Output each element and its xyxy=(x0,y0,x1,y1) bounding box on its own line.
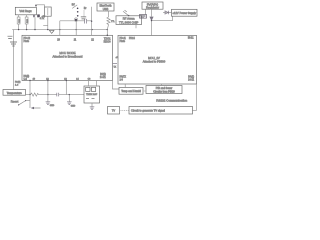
wire osc horizontal xyxy=(60,20,92,22)
svg-text:1-8: 1-8 xyxy=(120,80,124,82)
svg-text:Reset: Reset xyxy=(11,100,19,104)
temp humid box xyxy=(119,88,143,95)
capacitor C1 on pin xyxy=(17,17,20,24)
svg-text:14: 14 xyxy=(76,78,79,80)
svg-text:1-8: 1-8 xyxy=(15,85,19,87)
wire RF stub xyxy=(135,25,137,29)
wire drop SW xyxy=(29,81,31,109)
svg-text:10: 10 xyxy=(33,78,36,80)
svg-text:10: 10 xyxy=(57,40,60,42)
wire to MCU2 xyxy=(151,21,153,35)
svg-text:14-21: 14-21 xyxy=(188,79,195,81)
capacitor C3 pair xyxy=(34,15,35,18)
dashes link xyxy=(144,90,146,92)
capacitor C5 plates xyxy=(8,36,13,38)
svg-text:Temp and Humid: Temp and Humid xyxy=(121,89,141,93)
svg-text:TTL: TTL xyxy=(111,21,115,23)
svg-text:Circuitry from PIN20: Circuitry from PIN20 xyxy=(153,91,175,94)
svg-text:TX: TX xyxy=(114,67,117,69)
svg-text:TX-D1: TX-D1 xyxy=(104,39,111,41)
wire drop G2 xyxy=(47,81,49,102)
wire branch 12V xyxy=(152,16,173,20)
svg-text:TV: TV xyxy=(112,109,116,113)
svg-text:+12V Power Supply: +12V Power Supply xyxy=(172,11,196,15)
wire jack pin xyxy=(145,9,147,14)
wire pin2 xyxy=(26,15,28,30)
wire cap drop xyxy=(34,17,36,29)
svg-text:Proto: Proto xyxy=(24,40,30,43)
ground G2 xyxy=(46,102,51,105)
wire drop temp2 xyxy=(124,84,126,88)
svg-text:RS232 Communication: RS232 Communication xyxy=(156,99,187,103)
wire reg pin2 xyxy=(151,9,153,16)
capacitor C7 plates xyxy=(81,17,86,19)
svg-text:TTL 9600 CHIP: TTL 9600 CHIP xyxy=(119,20,138,24)
wire diode xyxy=(163,12,172,14)
svg-text:Circuit to generate TV signal: Circuit to generate TV signal xyxy=(131,109,165,113)
svg-text:Proto: Proto xyxy=(120,40,126,43)
svg-text:MCU_2V: MCU_2V xyxy=(148,56,160,60)
antenna A1 xyxy=(123,11,128,15)
svg-text:PIR and Sonar: PIR and Sonar xyxy=(156,87,173,90)
svg-text:PA(1): PA(1) xyxy=(188,75,194,78)
dashes TV link xyxy=(121,109,129,111)
svg-text:5v: 5v xyxy=(84,8,87,10)
svg-text:PD-11: PD-11 xyxy=(120,38,127,40)
bluetooth module box xyxy=(97,3,114,11)
svg-text:PA(0): PA(0) xyxy=(15,81,21,84)
wire to C8 xyxy=(39,94,57,96)
TV signal box xyxy=(129,107,193,115)
svg-text:Volt Regu: Volt Regu xyxy=(19,9,32,13)
ground G3 xyxy=(67,102,72,105)
svg-text:GND: GND xyxy=(71,105,76,107)
crystal X2 xyxy=(91,87,95,91)
wire drop G3 xyxy=(66,81,69,102)
ground G4 xyxy=(90,107,95,110)
ground G1 xyxy=(10,42,17,46)
capacitor C6 bars xyxy=(85,19,87,24)
TV box xyxy=(108,107,120,115)
crystal X1 xyxy=(86,87,90,91)
resistor R3 zigzag xyxy=(31,93,39,96)
temperature sensor box xyxy=(3,90,26,96)
wire U2 to temp2 xyxy=(113,81,120,90)
wire xtal gnd xyxy=(91,103,93,107)
svg-text:14-21: 14-21 xyxy=(100,77,107,79)
12V supply box xyxy=(172,9,198,16)
RF module box xyxy=(116,16,142,25)
svg-text:PA(0): PA(0) xyxy=(24,75,30,78)
node VIN dot xyxy=(35,5,37,7)
wire VIN stub xyxy=(36,5,45,8)
connector triangle T1 xyxy=(49,30,54,33)
diode D1 xyxy=(165,11,168,14)
svg-text:RX-D0: RX-D0 xyxy=(104,42,112,44)
svg-text:PD14: PD14 xyxy=(129,38,135,40)
svg-text:Regulator: Regulator xyxy=(146,6,159,10)
main rail VCC xyxy=(12,29,107,31)
svg-text:11: 11 xyxy=(74,40,77,42)
svg-text:IN-21: IN-21 xyxy=(188,38,194,40)
wire R2 to MCU xyxy=(106,30,108,36)
svg-text:Attached to PB530: Attached to PB530 xyxy=(143,59,166,63)
rail dots xyxy=(18,29,19,30)
svg-text:C3: C3 xyxy=(88,78,92,80)
svg-text:12: 12 xyxy=(91,40,94,42)
DC jack J1 xyxy=(140,15,147,19)
svg-text:PD-12: PD-12 xyxy=(24,38,31,40)
svg-text:PA/TX: PA/TX xyxy=(120,76,127,79)
svg-text:Temperature: Temperature xyxy=(7,91,23,95)
capacitor C2 on pin xyxy=(25,17,28,24)
resistor R1 vertical box xyxy=(45,7,52,16)
PIR sonar box xyxy=(146,86,182,94)
svg-text:USB: USB xyxy=(103,7,109,11)
MCU2 U3 box xyxy=(118,35,197,84)
switch SW2 xyxy=(19,101,25,105)
wire drop PIR xyxy=(160,84,162,86)
wire pin1 xyxy=(18,15,20,30)
svg-text:GND: GND xyxy=(50,105,55,107)
capacitor C4 dark xyxy=(37,14,40,17)
connector triangle T2 xyxy=(149,17,153,21)
svg-text:4.7k: 4.7k xyxy=(40,18,45,20)
wire drops xtal xyxy=(89,81,97,87)
svg-text:TX/RX GAP: TX/RX GAP xyxy=(86,93,98,96)
resistor R2 zigzag xyxy=(107,17,110,30)
wire BT down xyxy=(108,11,110,17)
5V regulator box xyxy=(142,2,163,9)
crystal circuit box xyxy=(84,86,100,103)
wire osc left xyxy=(59,21,61,36)
svg-text:PA(1): PA(1) xyxy=(100,73,106,76)
wire right drop xyxy=(91,7,93,36)
wire osc drop xyxy=(75,21,77,36)
svg-text:5V: 5V xyxy=(72,4,75,7)
wire to xtal xyxy=(59,94,84,96)
crystal Y1 dot xyxy=(74,18,78,22)
node TX stub xyxy=(113,62,117,64)
svg-text:Attached to Breadboard: Attached to Breadboard xyxy=(52,54,82,58)
wire right edge xyxy=(193,84,197,110)
wire R1 down xyxy=(43,16,48,29)
wire temp out xyxy=(26,94,31,96)
MCU node U2 box xyxy=(22,35,113,80)
voltage regulator U1 box xyxy=(15,7,36,15)
wire left drop xyxy=(13,30,15,90)
wire C7 hang xyxy=(83,10,85,17)
arrow wire xyxy=(32,107,41,109)
capacitor C8 xyxy=(57,93,59,97)
